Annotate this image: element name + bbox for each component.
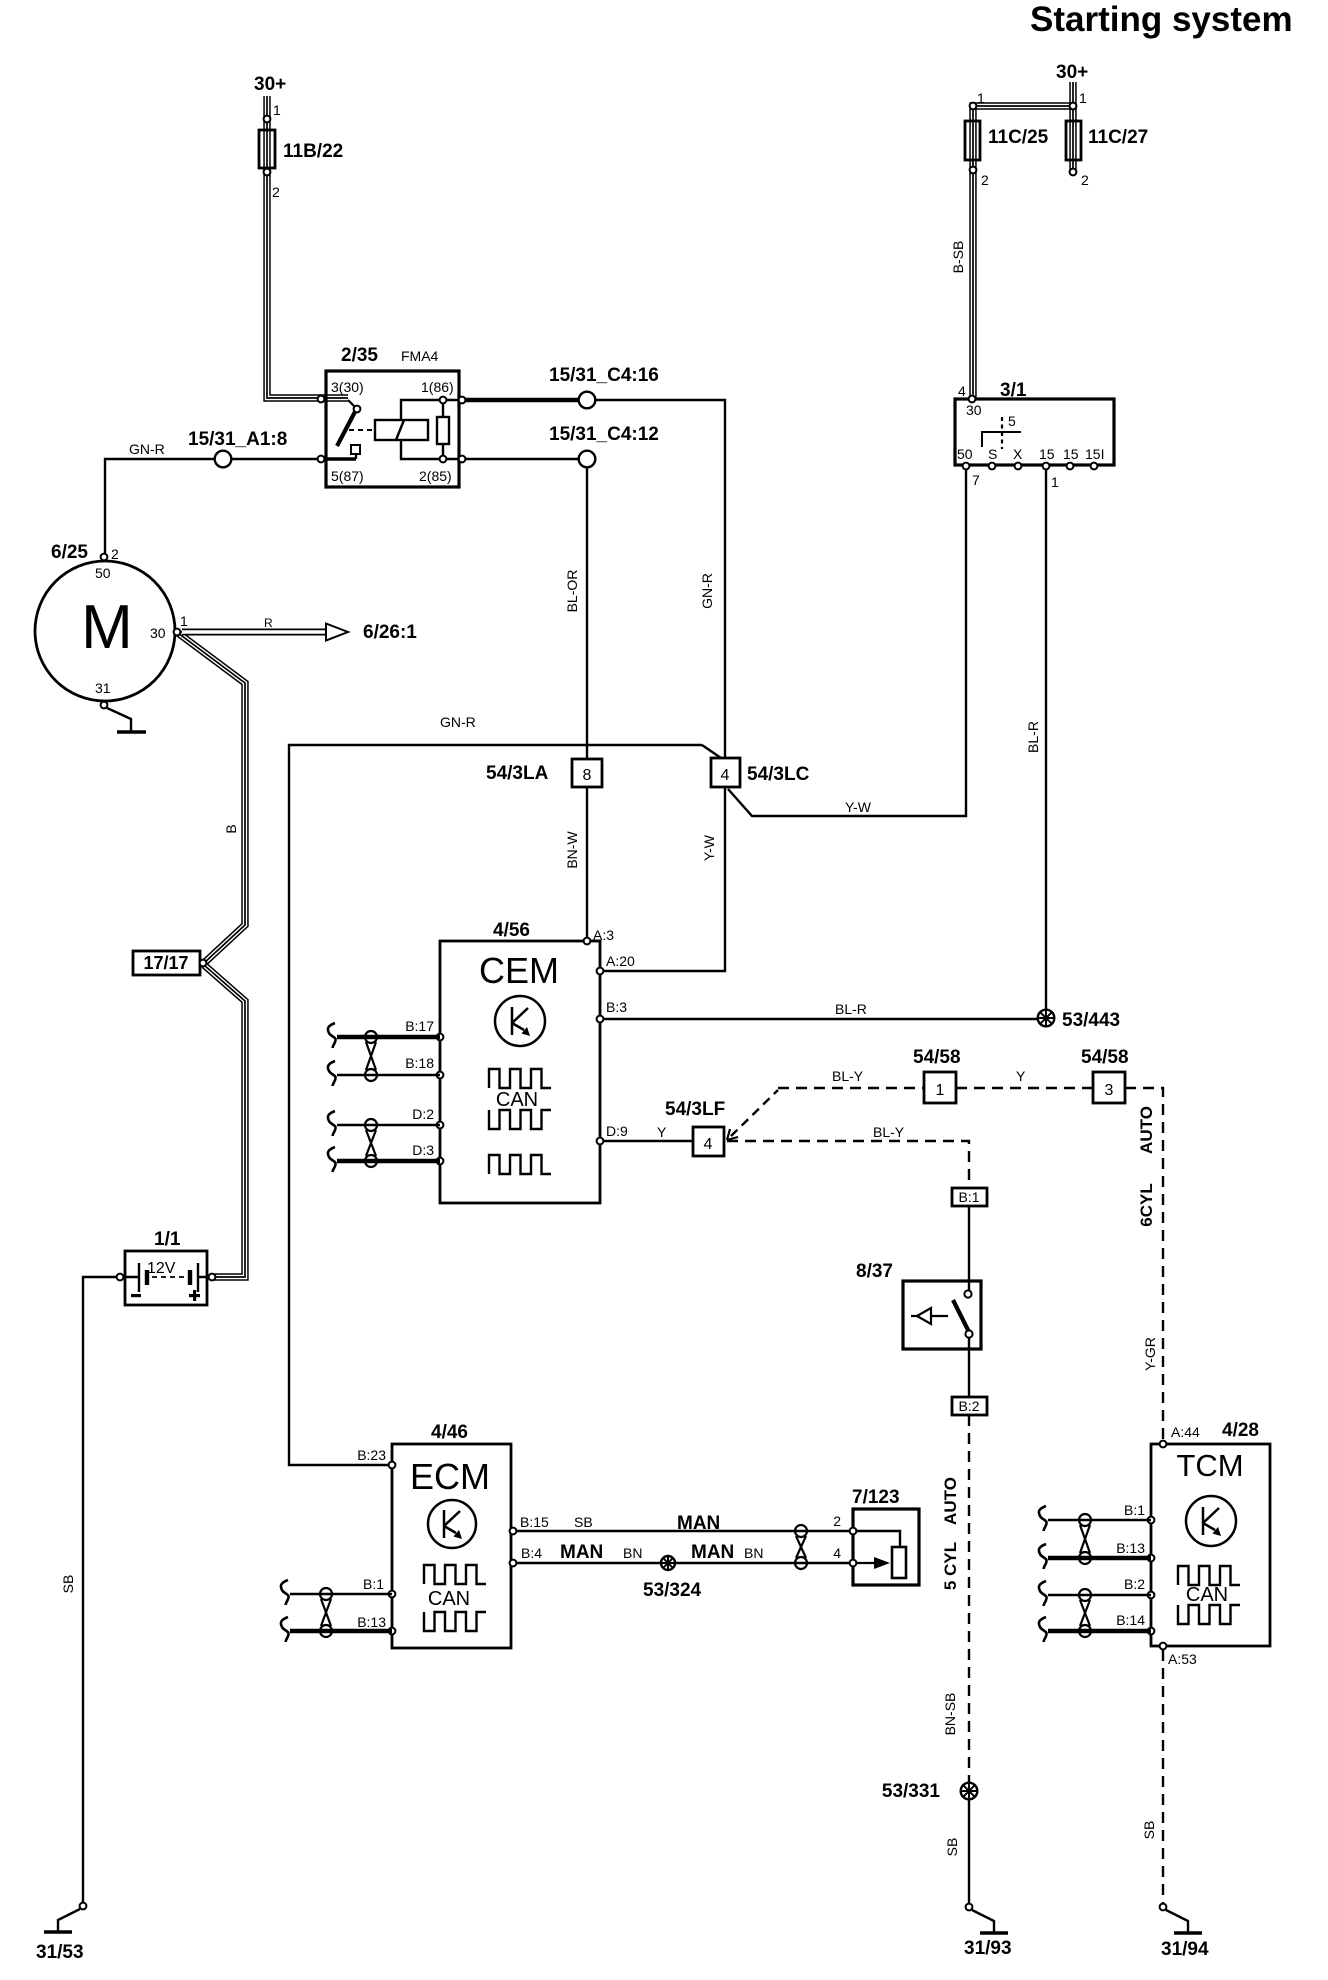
connector 17/17 — [133, 951, 206, 975]
fuse 11B/22 — [259, 102, 343, 200]
svg-text:4/56: 4/56 — [493, 920, 530, 941]
svg-text:Y-W: Y-W — [845, 799, 872, 815]
svg-text:BL-Y: BL-Y — [873, 1124, 905, 1140]
svg-text:D:9: D:9 — [606, 1123, 628, 1139]
svg-text:SB: SB — [60, 1575, 76, 1594]
svg-text:B:15: B:15 — [520, 1514, 549, 1530]
wire GN-R from node 15/31_C4:16 down to connector 54/3LC — [587, 400, 725, 758]
svg-text:B: B — [223, 824, 239, 833]
svg-text:1(86): 1(86) — [421, 379, 454, 395]
splice 53/443 — [1038, 1010, 1120, 1031]
svg-text:6CYL: 6CYL — [1137, 1183, 1156, 1226]
ground 31/93 — [964, 1904, 1012, 1959]
svg-text:4/28: 4/28 — [1222, 1420, 1259, 1441]
ECM CAN twisted pair B:1 B:13 — [281, 1580, 392, 1642]
svg-text:B:1: B:1 — [958, 1189, 979, 1205]
wire Y-W from connector 54/3LC down to CEM A:20 — [600, 787, 725, 971]
svg-text:17/17: 17/17 — [143, 953, 188, 973]
svg-text:CEM: CEM — [479, 950, 559, 991]
svg-text:CAN: CAN — [496, 1089, 538, 1111]
svg-text:SB: SB — [944, 1838, 960, 1857]
relay 2/35 FMA4 — [318, 345, 466, 487]
wire BL-R from CEM B:3 to splice 53/443 — [600, 1001, 1046, 1019]
svg-text:54/58: 54/58 — [1081, 1047, 1129, 1068]
svg-text:B:1: B:1 — [1124, 1502, 1145, 1518]
wire from relay 2(85) to node 15/31_C4:12 — [459, 458, 587, 460]
wire BN-W from connector 54/3LA to CEM A:3 — [564, 787, 587, 941]
wire Y from CEM D:9 to connector 54/3LF — [600, 1124, 693, 1141]
svg-text:6/25: 6/25 — [51, 542, 88, 563]
svg-text:GN-R: GN-R — [699, 573, 715, 609]
svg-text:MAN: MAN — [677, 1513, 720, 1534]
svg-text:11B/22: 11B/22 — [283, 141, 343, 162]
svg-text:11C/27: 11C/27 — [1088, 127, 1148, 148]
wire Y dashed between 54/58 pin 1 and pin 3 — [956, 1068, 1093, 1088]
svg-text:50: 50 — [95, 565, 111, 581]
svg-text:31/93: 31/93 — [964, 1938, 1012, 1959]
svg-text:15I: 15I — [1085, 446, 1104, 462]
svg-text:54/3LC: 54/3LC — [747, 764, 810, 785]
svg-text:2: 2 — [272, 184, 280, 200]
wire from connector B:1 to switch 8/37 — [968, 1206, 970, 1294]
svg-text:MAN: MAN — [691, 1542, 734, 1563]
TCM 4/28 — [1116, 1420, 1270, 1667]
svg-text:5: 5 — [1008, 413, 1016, 429]
svg-text:54/3LF: 54/3LF — [665, 1099, 725, 1120]
CEM CAN twisted pair B:17 B:18 — [328, 1023, 440, 1086]
switch 8/37 — [856, 1261, 981, 1349]
svg-text:BN-SB: BN-SB — [942, 1693, 958, 1736]
svg-text:30+: 30+ — [1056, 62, 1088, 83]
svg-text:8/37: 8/37 — [856, 1261, 893, 1282]
svg-text:54/58: 54/58 — [913, 1047, 961, 1068]
svg-text:2(85): 2(85) — [419, 468, 452, 484]
svg-text:30: 30 — [966, 402, 982, 418]
svg-text:4: 4 — [833, 1545, 841, 1561]
connector 54/3LA pin 8 — [486, 759, 602, 787]
svg-text:FMA4: FMA4 — [401, 348, 439, 364]
svg-text:2: 2 — [833, 1513, 841, 1529]
svg-text:3/1: 3/1 — [1000, 380, 1027, 401]
svg-text:4: 4 — [721, 767, 730, 784]
svg-text:31: 31 — [95, 680, 111, 696]
node 30+ top right — [1056, 62, 1088, 83]
svg-text:R: R — [264, 616, 273, 630]
wire B from motor terminal 30 through 17/17 to battery positive — [178, 633, 245, 1277]
svg-text:1: 1 — [180, 613, 188, 629]
svg-text:B-SB: B-SB — [950, 241, 966, 274]
wire BL-R from ignition switch pin 15 down to splice 53/443 — [1025, 466, 1046, 1018]
splice 53/324 — [643, 1556, 702, 1601]
wire SB from battery negative to ground 31/53 — [60, 1277, 125, 1903]
node 30+ top left — [254, 74, 286, 95]
svg-text:15/31_C4:12: 15/31_C4:12 — [549, 424, 659, 445]
svg-text:4: 4 — [704, 1136, 713, 1153]
TCM CAN twisted pair B:1 B:13 — [1039, 1506, 1151, 1569]
svg-text:5(87): 5(87) — [331, 468, 364, 484]
svg-text:1/1: 1/1 — [154, 1229, 181, 1250]
svg-text:11C/25: 11C/25 — [988, 127, 1049, 148]
svg-text:15: 15 — [1063, 446, 1079, 462]
svg-text:15/31_A1:8: 15/31_A1:8 — [188, 429, 287, 450]
svg-text:ECM: ECM — [410, 1456, 490, 1497]
twist symbol on MAN wires — [795, 1525, 807, 1569]
svg-text:30+: 30+ — [254, 74, 286, 95]
CEM 4/56 — [405, 920, 635, 1203]
svg-text:X: X — [1013, 446, 1023, 462]
svg-text:S: S — [988, 446, 997, 462]
svg-text:2: 2 — [981, 172, 989, 188]
svg-text:3: 3 — [1105, 1082, 1114, 1099]
svg-text:D:3: D:3 — [412, 1142, 434, 1158]
svg-text:7: 7 — [972, 472, 980, 488]
svg-text:53/443: 53/443 — [1062, 1010, 1120, 1031]
svg-text:1: 1 — [273, 102, 281, 118]
node 15/31_A1:8 — [188, 429, 287, 467]
wire B-SB from fuse 11C/25 to ignition switch pin 30 — [950, 170, 973, 399]
svg-text:SB: SB — [1141, 1821, 1157, 1840]
svg-text:BL-R: BL-R — [1025, 721, 1041, 753]
wire GN-R from relay 5(87) to motor terminal 50 — [105, 441, 326, 557]
connector 54/58 pin 3 — [1081, 1047, 1129, 1103]
wire BL-OR from node 15/31_C4:12 down to connector 54/3LA — [564, 459, 587, 759]
svg-text:BN: BN — [744, 1545, 763, 1561]
svg-text:SB: SB — [574, 1514, 593, 1530]
svg-text:2/35: 2/35 — [341, 345, 378, 366]
svg-text:54/3LA: 54/3LA — [486, 763, 549, 784]
svg-text:GN-R: GN-R — [129, 441, 165, 457]
svg-text:Y: Y — [657, 1124, 667, 1140]
svg-text:Y: Y — [1016, 1068, 1026, 1084]
svg-text:CAN: CAN — [428, 1588, 470, 1610]
wire MAN/BN from ECM B:4 to 7/123 pin 4 — [513, 1542, 849, 1563]
svg-text:M: M — [81, 593, 133, 662]
svg-text:4/46: 4/46 — [431, 1422, 468, 1443]
svg-text:Starting system: Starting system — [1030, 0, 1293, 39]
svg-text:MAN: MAN — [560, 1542, 603, 1563]
connector 54/3LC pin 4 — [711, 758, 810, 787]
wire 6CYL AUTO Y-GR dashed from 54/58 pin 3 to TCM A:44 — [1125, 1088, 1163, 1440]
svg-text:B:4: B:4 — [521, 1545, 542, 1561]
svg-text:BN-W: BN-W — [564, 831, 580, 869]
svg-text:30: 30 — [150, 625, 166, 641]
svg-text:12V: 12V — [147, 1260, 176, 1277]
svg-text:15/31_C4:16: 15/31_C4:16 — [549, 365, 659, 386]
svg-text:B:1: B:1 — [363, 1576, 384, 1592]
svg-text:A:3: A:3 — [593, 927, 614, 943]
ignition switch 3/1 — [955, 380, 1114, 490]
wire BL-Y dashed from 54/3LF to connector 54/58 pin 1 — [727, 1068, 924, 1140]
wire from switch 8/37 to connector B:2 — [968, 1334, 970, 1397]
ECM 4/46 — [357, 1422, 549, 1648]
svg-text:1: 1 — [977, 90, 985, 106]
wire SB from splice 53/331 to ground 31/93 — [944, 1800, 969, 1903]
fuse 11C/25 — [965, 90, 1049, 188]
wire 30+ supply to fuses 11C/25 and 11C/27 — [973, 82, 1073, 172]
svg-text:31/94: 31/94 — [1161, 1939, 1209, 1960]
wire GN-R horizontal/vertical to ECM B:23 — [289, 714, 721, 1465]
svg-text:B:14: B:14 — [1116, 1612, 1145, 1628]
svg-text:6/26:1: 6/26:1 — [363, 622, 417, 643]
ground 31/53 — [36, 1903, 86, 1963]
svg-text:7/123: 7/123 — [852, 1487, 900, 1508]
connector 54/3LF pin 4 — [665, 1099, 725, 1156]
svg-text:4: 4 — [958, 383, 966, 399]
svg-text:B:2: B:2 — [1124, 1576, 1145, 1592]
wire Y-W from connector 54/3LC to ignition switch pin 50 — [728, 466, 966, 816]
svg-text:A:20: A:20 — [606, 953, 635, 969]
ground 31/94 — [1160, 1904, 1209, 1960]
svg-text:53/324: 53/324 — [643, 1580, 702, 1601]
svg-text:2: 2 — [1081, 172, 1089, 188]
battery 1/1 12V — [117, 1229, 216, 1305]
wire thick from relay 1(86) to node 15/31_C4:16 — [459, 398, 587, 402]
svg-text:1: 1 — [936, 1082, 945, 1099]
svg-text:BL-OR: BL-OR — [564, 570, 580, 613]
svg-text:B:17: B:17 — [405, 1018, 434, 1034]
resistor module 7/123 — [833, 1487, 919, 1585]
svg-text:D:2: D:2 — [412, 1106, 434, 1122]
svg-text:50: 50 — [957, 446, 973, 462]
svg-text:15: 15 — [1039, 446, 1055, 462]
svg-text:2: 2 — [111, 546, 119, 562]
svg-text:B:13: B:13 — [357, 1614, 386, 1630]
TCM twisted pair B:2 B:14 — [1039, 1581, 1151, 1642]
wire 30+ supply through fuse 11B/22 to relay 3(30) — [267, 96, 355, 407]
svg-text:A:44: A:44 — [1171, 1424, 1200, 1440]
node 15/31_C4:12 — [549, 424, 659, 467]
svg-text:53/331: 53/331 — [882, 1781, 941, 1802]
svg-text:Y-GR: Y-GR — [1142, 1337, 1158, 1371]
title Starting system — [1030, 0, 1293, 39]
svg-text:3(30): 3(30) — [331, 379, 364, 395]
connector B:2 — [952, 1397, 987, 1415]
svg-text:B:3: B:3 — [606, 999, 627, 1015]
wire SB dashed from TCM A:53 to ground 31/94 — [1141, 1650, 1163, 1903]
svg-text:BL-Y: BL-Y — [832, 1068, 864, 1084]
svg-text:B:23: B:23 — [357, 1447, 386, 1463]
svg-text:5 CYL: 5 CYL — [941, 1542, 960, 1590]
connector B:1 — [952, 1188, 987, 1206]
svg-text:AUTO: AUTO — [1137, 1106, 1156, 1154]
wire BL-Y dashed from 54/3LF to connector B:1 — [727, 1124, 969, 1188]
svg-text:1: 1 — [1079, 90, 1087, 106]
splice 53/331 — [882, 1781, 977, 1802]
svg-text:8: 8 — [583, 767, 592, 784]
svg-text:AUTO: AUTO — [941, 1477, 960, 1525]
motor 6/25 starter — [35, 542, 188, 708]
svg-text:B:13: B:13 — [1116, 1540, 1145, 1556]
svg-text:TCM: TCM — [1176, 1448, 1243, 1483]
svg-text:BL-R: BL-R — [835, 1001, 867, 1017]
svg-text:CAN: CAN — [1186, 1584, 1228, 1606]
svg-text:BN: BN — [623, 1545, 642, 1561]
wire R arrow from motor terminal 30 to 6/26:1 — [182, 616, 417, 643]
node 15/31_C4:16 — [549, 365, 659, 408]
connector 54/58 pin 1 — [913, 1047, 961, 1103]
svg-text:1: 1 — [1051, 474, 1059, 490]
wire 5CYL AUTO BN-SB dashed from B:2 to splice 53/331 — [941, 1415, 969, 1782]
ground at motor 31 — [107, 708, 146, 732]
fuse 11C/27 — [1066, 90, 1148, 188]
svg-text:A:53: A:53 — [1168, 1651, 1197, 1667]
svg-text:B:18: B:18 — [405, 1055, 434, 1071]
svg-text:31/53: 31/53 — [36, 1942, 84, 1963]
svg-text:GN-R: GN-R — [440, 714, 476, 730]
svg-text:B:2: B:2 — [958, 1398, 979, 1414]
svg-text:Y-W: Y-W — [701, 834, 717, 861]
wire SB/MAN from ECM B:15 to 7/123 pin 2 — [513, 1513, 849, 1534]
CEM twisted pair D:2 D:3 — [328, 1111, 440, 1172]
